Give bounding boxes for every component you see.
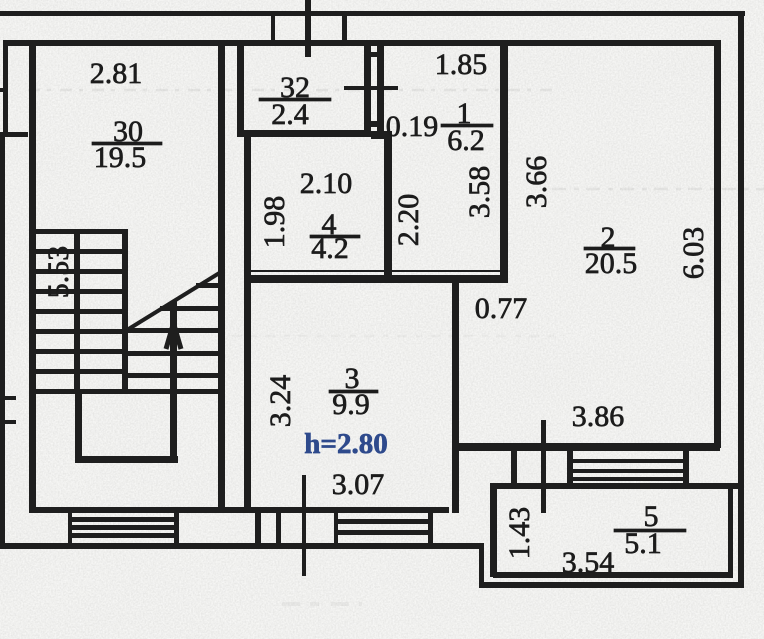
svg-text:3.54: 3.54	[562, 546, 615, 579]
svg-text:5.1: 5.1	[624, 527, 662, 560]
balcony outer left line	[479, 543, 484, 588]
lower tread b	[160, 306, 218, 311]
wall connector 0.19 top	[365, 52, 384, 57]
room 3 window line 2	[334, 530, 432, 535]
stair tread 1	[36, 229, 126, 234]
entry steps left jamb	[68, 513, 72, 543]
room 2 bottom wall	[459, 443, 720, 451]
stair tread 2	[36, 249, 126, 254]
room 32 left wall	[237, 40, 244, 136]
balcony right inner line	[728, 489, 733, 576]
dimension tick 0.19	[344, 86, 398, 90]
balcony window left jamb	[567, 449, 573, 483]
lower tread c	[127, 328, 218, 333]
svg-text:2.10: 2.10	[300, 167, 353, 200]
room 32 right wall	[364, 40, 371, 137]
svg-text:3.58: 3.58	[463, 166, 496, 219]
room 3 window left drop	[276, 513, 281, 545]
outer left wall upper segment	[3, 40, 8, 137]
faint scan streak 3	[232, 335, 560, 338]
left wall tick y132	[0, 132, 28, 137]
room 3 left wall lower connector	[255, 513, 261, 544]
stair tread 5	[36, 309, 126, 314]
stair tread 8	[36, 369, 126, 374]
entry steps right jamb	[174, 513, 179, 545]
room 3 window right jamb	[428, 513, 433, 544]
wall connector 0.19 bottom	[365, 121, 384, 127]
svg-text:0.19: 0.19	[386, 110, 439, 143]
balcony bottom outer line	[479, 582, 744, 588]
svg-text:19.5: 19.5	[94, 141, 147, 174]
left wall tick y396	[0, 396, 16, 400]
left wall tick y420	[0, 420, 16, 424]
svg-text:3.66: 3.66	[520, 156, 553, 209]
stair break diagonal	[127, 272, 221, 330]
svg-text:3.24: 3.24	[264, 375, 297, 428]
stair tread 3	[36, 269, 126, 274]
landing top line	[33, 389, 220, 394]
room 3 window line 1	[334, 519, 432, 524]
svg-text:6.03: 6.03	[677, 227, 710, 280]
lower tread d	[127, 351, 218, 356]
balcony window line 1	[567, 459, 689, 463]
svg-text:1.98: 1.98	[258, 196, 291, 249]
balcony door tick (room 2)	[541, 420, 546, 513]
outer top wall line	[0, 11, 745, 16]
balcony window right jamb	[683, 449, 689, 483]
landing box right / stair walking line shaft	[170, 301, 177, 463]
svg-text:1.85: 1.85	[435, 48, 488, 81]
svg-text:9.9: 9.9	[332, 388, 370, 421]
stair upper flight right edge	[122, 229, 128, 392]
room 1 right wall	[500, 40, 508, 283]
room 3 right wall	[452, 276, 459, 513]
wall jog between rooms 32-4-1	[371, 131, 392, 139]
faint scan smudge bottom	[282, 602, 362, 606]
stair tread 4	[36, 289, 126, 294]
svg-text:h=2.80: h=2.80	[304, 428, 387, 460]
svg-text:20.5: 20.5	[585, 247, 638, 280]
rooms 1+4 bottom wall thin upper line	[244, 270, 508, 272]
landing box left	[75, 394, 82, 463]
stair stringer	[74, 229, 80, 394]
room 4 right wall	[384, 131, 392, 281]
room 32 bottom wall	[237, 130, 371, 137]
entry step 2	[68, 525, 178, 530]
inner top wall	[3, 40, 720, 46]
landing box bottom	[75, 456, 178, 463]
svg-text:2.4: 2.4	[271, 98, 309, 131]
balcony left wall	[490, 483, 497, 577]
lower tread e	[127, 373, 218, 378]
faint scan streak 1	[28, 89, 558, 92]
svg-text:3.07: 3.07	[332, 468, 385, 501]
svg-text:5.53: 5.53	[42, 246, 75, 299]
left wall tick y88	[0, 88, 7, 92]
room 3 balcony door tick	[302, 475, 306, 576]
inner right wall (room 2)	[714, 40, 721, 448]
stair walk arrow	[166, 325, 181, 349]
rooms 4 and 3 left wall	[244, 131, 251, 510]
rooms 1+4 bottom wall / room 3 top wall	[244, 275, 508, 283]
bottom outer wall	[2, 543, 484, 549]
jamb drop left of balcony window	[511, 448, 517, 486]
stair hall bottom wall	[29, 507, 449, 513]
top window tick	[305, 0, 311, 57]
room 1 left wall upper	[377, 40, 384, 135]
stair tread 7	[36, 349, 126, 354]
top window jamb right	[342, 16, 347, 42]
room 3 window left jamb	[334, 513, 338, 544]
balcony window sill line	[567, 477, 689, 481]
svg-text:2.81: 2.81	[90, 57, 143, 90]
entry step 1	[68, 517, 178, 522]
outer right wall line	[738, 11, 744, 588]
balcony bottom inner line	[493, 572, 733, 578]
svg-text:2.20: 2.20	[392, 194, 425, 247]
svg-text:4.2: 4.2	[311, 232, 349, 265]
inner left wall (stair hall)	[29, 40, 36, 513]
svg-text:1.43: 1.43	[503, 507, 536, 560]
balcony top edge	[490, 483, 742, 489]
svg-text:6.2: 6.2	[447, 124, 485, 157]
outer left wall lower segment	[0, 134, 5, 549]
lower tread a	[196, 283, 218, 288]
svg-text:3.86: 3.86	[572, 400, 625, 433]
stair tread 6	[36, 329, 126, 334]
entry step 3	[68, 533, 178, 538]
balcony window line 2	[567, 469, 689, 473]
room 30 right wall	[218, 40, 225, 510]
top window jamb left	[271, 16, 275, 42]
faint scan streak 2	[552, 188, 764, 191]
svg-text:0.77: 0.77	[475, 292, 528, 325]
